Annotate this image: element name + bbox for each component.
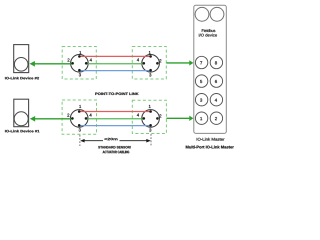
M12 connector row1 left body [71, 55, 89, 73]
arrowhead left of dimension [80, 139, 84, 143]
pins M12 row2 left [71, 110, 87, 126]
wire green row2 to device #1 [35, 118, 73, 120]
label STANDARD SENSOR/ [98, 146, 131, 149]
master port 6 [210, 75, 222, 87]
fieldbus connector circle left [195, 7, 209, 21]
IO-Link Device #2 body [14, 45, 29, 73]
label POINT-TO-POINT LINK [95, 93, 138, 96]
IO-Link Device #1 port circle [14, 112, 28, 126]
pins M12 row1 right [143, 55, 159, 71]
IO-Link Device #2 port circle [14, 58, 28, 72]
dimension guide line right [150, 134, 152, 146]
port number 5 [200, 80, 202, 83]
label Fieldbus [202, 29, 216, 32]
wire green row1 mid (pin4 to pin4) [86, 63, 144, 65]
dashed connector box row2 left [62, 100, 96, 134]
fieldbus connector circle right [210, 7, 224, 21]
M12 connector row1 right body [142, 55, 160, 73]
wire green row2 to master port 1 [166, 117, 189, 119]
master port 4 [210, 94, 222, 106]
wire blue row1 (pin3 to pin3) [79, 70, 150, 72]
wire red row2 (pin1 to pin1) [79, 111, 150, 113]
M12 connector row2 left body [70, 110, 88, 128]
pin numbers row1 right [149, 51, 151, 54]
IO-Link Device #1 body [14, 99, 29, 127]
M12 connector row2 right body [142, 110, 160, 128]
dimension guide line left [79, 135, 81, 146]
pins M12 row2 right [143, 110, 159, 126]
master port 5 [195, 75, 207, 87]
wire green row1 to device #2 [34, 63, 73, 65]
port number 8 [215, 61, 217, 64]
wire red row1 (pin1 to pin1) [79, 55, 150, 57]
wire green row1 to master port 7 [166, 62, 189, 64]
label IO-Link Device #2 [5, 77, 39, 80]
pins M12 row1 left [71, 55, 87, 71]
label Multi-Port IO-Link Master [186, 146, 234, 149]
dashed connector box row1 right [132, 47, 166, 80]
dashed connector box row1 left [62, 47, 96, 80]
arrowhead into master port 7 [189, 60, 193, 65]
port number 3 [200, 99, 202, 102]
port number 1 [200, 117, 202, 120]
dimension arrow 20m right segment [120, 140, 150, 142]
dashed connector box row2 right [132, 100, 166, 133]
port number 4 [215, 99, 217, 102]
Multi-Port IO-Link Master body [194, 5, 227, 133]
dimension arrow 20m left segment [82, 140, 104, 142]
label IO-Link Device #1 [5, 130, 39, 133]
master port 1 [195, 112, 207, 124]
pin numbers row2 left [79, 105, 81, 108]
pin numbers row2 right [149, 105, 151, 108]
port number 7 [200, 61, 202, 64]
pin numbers row1 left [79, 51, 81, 54]
arrowhead into device #2 [30, 61, 35, 67]
wire blue row2 (pin3 to pin3) [79, 125, 150, 127]
label I/O device [199, 34, 217, 37]
port number 6 [215, 80, 217, 83]
arrowhead right of dimension [146, 139, 150, 143]
label ACTUATOR CABLING [103, 151, 130, 154]
master port 2 [210, 112, 222, 124]
master port 3 [195, 94, 207, 106]
master port 8 [210, 56, 222, 68]
arrowhead into master port 1 [189, 116, 193, 121]
master port 7 [195, 56, 207, 68]
port number 2 [215, 117, 217, 120]
label IO-Link Master [197, 138, 225, 141]
wire green row2 mid (pin4 to pin4) [86, 118, 144, 120]
arrowhead into device #1 [30, 116, 35, 122]
label <20m [104, 138, 117, 140]
